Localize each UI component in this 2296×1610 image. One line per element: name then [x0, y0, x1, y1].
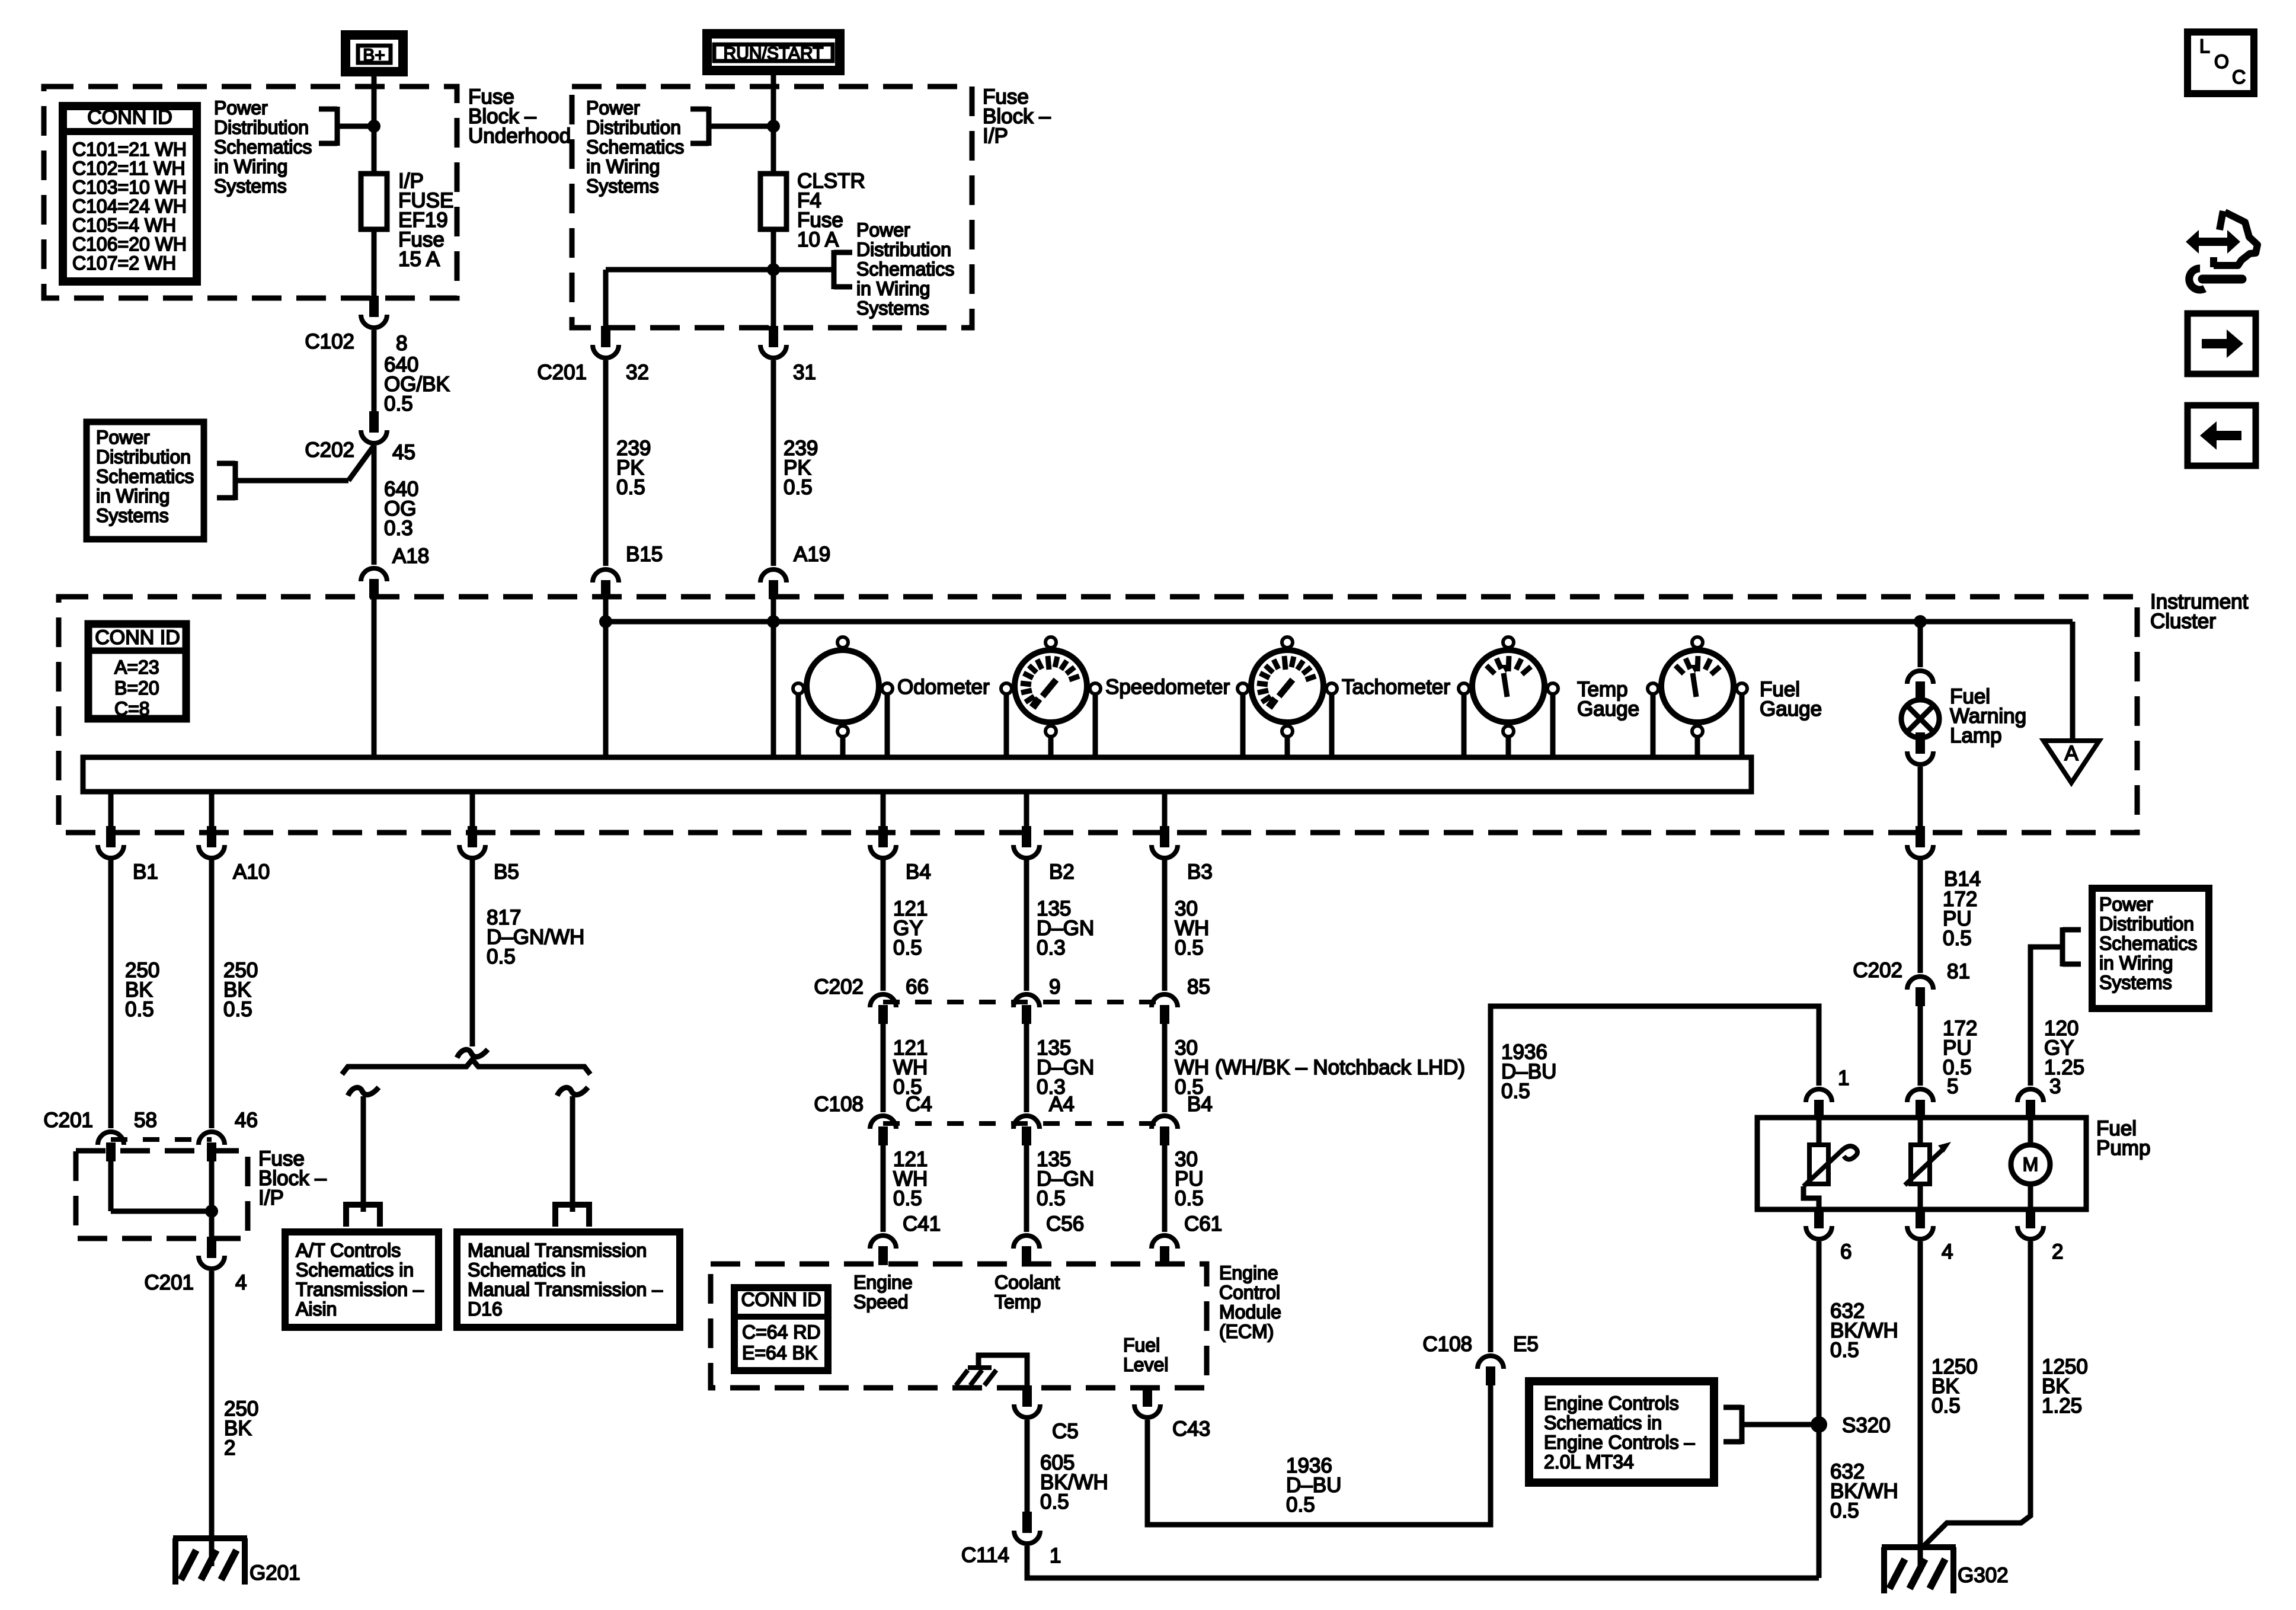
svg-text:Systems: Systems [96, 505, 169, 526]
svg-text:C43: C43 [1172, 1417, 1210, 1441]
connector C114 pin 1 [1022, 1512, 1032, 1533]
connector A19 [760, 569, 786, 582]
junction node [767, 263, 780, 276]
svg-text:Level: Level [1123, 1354, 1169, 1375]
fuse block underhood dashed box [44, 87, 457, 298]
svg-text:Engine: Engine [1219, 1262, 1278, 1283]
wire 172 PU upper [1918, 859, 1923, 973]
svg-text:Schematics in: Schematics in [296, 1259, 414, 1281]
arrow diagonal [1905, 1148, 1944, 1185]
svg-text:Gauge: Gauge [1577, 697, 1639, 721]
wire to C202 [235, 478, 348, 484]
power feed B+ box [346, 35, 403, 72]
svg-text:C4: C4 [906, 1093, 932, 1116]
connector fuel pump pin 3 [2017, 1089, 2044, 1102]
svg-text:C105=4 WH: C105=4 WH [72, 215, 176, 236]
wire 239 PK left [603, 360, 609, 566]
terminal staple left [346, 1205, 380, 1227]
svg-text:C201: C201 [537, 361, 587, 384]
connector C201 pin 4 [207, 1237, 216, 1258]
svg-text:45: 45 [392, 441, 415, 464]
splice S320 [1811, 1416, 1827, 1433]
LOC legend box [2188, 32, 2254, 94]
svg-text:C41: C41 [903, 1212, 941, 1235]
svg-text:Tachometer: Tachometer [1342, 676, 1450, 699]
branch wire right [570, 1096, 575, 1212]
variable resistor [1911, 1145, 1930, 1184]
adjust icon double arrow [2186, 230, 2240, 254]
connector C43 [1143, 1385, 1152, 1407]
fuel sender resistor [1809, 1145, 1828, 1184]
power distribution schematics box (right) [2092, 888, 2209, 1009]
wire B1 to cluster edge [108, 792, 114, 828]
engine controls reference box [1529, 1381, 1714, 1483]
A/T controls reference box [285, 1232, 439, 1327]
svg-text:(ECM): (ECM) [1219, 1321, 1274, 1342]
svg-text:Speed: Speed [853, 1291, 909, 1313]
svg-text:CONN ID: CONN ID [87, 106, 172, 129]
svg-text:B15: B15 [626, 543, 663, 566]
reference bracket [2060, 927, 2065, 966]
svg-text:I/P: I/P [983, 124, 1008, 148]
diagonal wire [348, 446, 374, 481]
wire [1918, 1184, 1923, 1209]
fuse CLSTR F4 10A [760, 174, 786, 229]
wire to C201-32 [603, 270, 609, 328]
svg-text:in Wiring: in Wiring [96, 485, 170, 507]
svg-text:Schematics: Schematics [2099, 933, 2197, 954]
svg-text:58: 58 [134, 1109, 157, 1132]
connector fuel pump pin 6 [1814, 1207, 1824, 1228]
distribution bar [342, 1060, 590, 1074]
wire to RUN/START feed [709, 124, 773, 129]
CONN ID table underhood [63, 106, 197, 281]
wire lamp to B14 [1918, 767, 1923, 828]
wire 1250 BK 1.25 [1922, 1241, 2030, 1548]
node B15 rail [599, 615, 612, 628]
connector B4 [878, 826, 888, 847]
svg-text:31: 31 [793, 361, 816, 384]
wire [1024, 1024, 1029, 1112]
forward arrow [2202, 329, 2243, 358]
wire [2028, 1119, 2033, 1145]
svg-text:Schematics: Schematics [214, 136, 312, 158]
svg-text:Aisin: Aisin [296, 1298, 337, 1320]
temp gauge [1472, 650, 1544, 722]
svg-text:Distribution: Distribution [2099, 913, 2194, 934]
connector C202 link dashes [883, 1000, 1165, 1004]
connector B15 [593, 569, 619, 582]
svg-text:Fuel: Fuel [1123, 1334, 1160, 1356]
wire 632 BK/WH [1817, 1241, 1822, 1578]
svg-text:B+: B+ [363, 46, 385, 65]
wire to B+ feed [337, 124, 374, 129]
svg-text:A: A [2064, 742, 2078, 765]
wire fuse to C102 [372, 229, 377, 298]
wire C114 to S320 [1027, 1546, 1819, 1578]
connector A10 [207, 826, 216, 847]
svg-text:Systems: Systems [2099, 972, 2172, 993]
wire joining pins [111, 1209, 212, 1214]
tachometer gauge [1251, 650, 1323, 722]
svg-text:C=8: C=8 [114, 698, 150, 719]
svg-text:C201: C201 [144, 1271, 194, 1294]
connector B5 [468, 826, 477, 847]
svg-text:Engine Controls: Engine Controls [1544, 1393, 1679, 1414]
wire B15 into cluster [603, 599, 609, 758]
svg-text:0.5: 0.5 [893, 1187, 922, 1210]
svg-text:0.5: 0.5 [487, 945, 516, 968]
svg-text:0.5: 0.5 [1175, 1187, 1204, 1210]
odometer gauge [807, 650, 879, 722]
reference bracket [706, 107, 712, 146]
connector fuel pump pin 5 [1907, 1089, 1933, 1102]
connector fuel pump pin 1 [1806, 1089, 1832, 1102]
svg-text:6: 6 [1840, 1240, 1851, 1263]
power feed RUN/START box [707, 34, 840, 71]
svg-text:C: C [2232, 66, 2246, 88]
svg-text:0.5: 0.5 [1943, 927, 1972, 950]
power distribution schematics box (left) [87, 422, 204, 539]
svg-text:L: L [2199, 36, 2210, 57]
wire 640 OG/BK [372, 330, 377, 414]
svg-text:C103=10 WH: C103=10 WH [72, 177, 187, 198]
CONN ID table cluster [88, 624, 186, 719]
svg-text:C102=11 WH: C102=11 WH [72, 158, 186, 179]
wire A10 to cluster edge [209, 792, 215, 828]
svg-text:B4: B4 [906, 860, 931, 884]
wire to fuel warning lamp [1918, 622, 1923, 667]
svg-text:in Wiring: in Wiring [586, 156, 660, 177]
svg-text:G302: G302 [1958, 1564, 2009, 1587]
wire 817 D-GN/WH [470, 859, 475, 1046]
svg-text:0.5: 0.5 [1175, 936, 1204, 959]
manual transmission reference box [457, 1232, 680, 1327]
svg-text:Odometer: Odometer [897, 676, 990, 699]
svg-text:A4: A4 [1049, 1093, 1075, 1116]
svg-text:0.5: 0.5 [616, 476, 645, 499]
adjust icon hand outline [2214, 212, 2257, 265]
svg-text:WH (WH/BK – Notchback LHD): WH (WH/BK – Notchback LHD) [1175, 1056, 1465, 1079]
svg-text:RUN/START: RUN/START [724, 44, 824, 63]
wire through fuse block [209, 1161, 215, 1239]
svg-text:Engine: Engine [853, 1272, 913, 1293]
svg-text:Power: Power [586, 97, 640, 119]
wire 250 BK (A10) [209, 859, 215, 1128]
wire 135 D–GN [1024, 859, 1029, 991]
svg-text:1: 1 [1050, 1544, 1061, 1567]
svg-text:2: 2 [2052, 1240, 2063, 1263]
svg-text:Distribution: Distribution [856, 239, 951, 260]
reference bracket [335, 107, 340, 146]
svg-text:8: 8 [396, 332, 407, 355]
wire B3 to cluster edge [1162, 792, 1168, 828]
svg-text:3: 3 [2049, 1075, 2061, 1098]
svg-text:0.5: 0.5 [1037, 1187, 1066, 1210]
svg-text:C202: C202 [305, 438, 354, 462]
svg-text:A=23: A=23 [114, 657, 159, 678]
engine control module dashed box [711, 1264, 1207, 1388]
svg-text:C101=21 WH: C101=21 WH [72, 139, 187, 160]
svg-text:A/T Controls: A/T Controls [296, 1240, 401, 1261]
svg-text:in Wiring: in Wiring [856, 278, 930, 299]
wire [1024, 1145, 1029, 1232]
connector fuel pump pin 4 [1916, 1207, 1925, 1228]
svg-text:15 A: 15 A [398, 248, 440, 271]
back arrow [2200, 421, 2241, 450]
svg-text:Module: Module [1219, 1301, 1281, 1323]
connector C61 [1152, 1235, 1178, 1249]
svg-text:Schematics in: Schematics in [1544, 1412, 1662, 1433]
svg-text:Speedometer: Speedometer [1105, 676, 1230, 699]
svg-text:E5: E5 [1513, 1333, 1539, 1356]
terminal staple right [555, 1205, 589, 1227]
svg-text:Control: Control [1219, 1282, 1280, 1303]
fuse I/P FUSE EF19 15A [361, 174, 387, 229]
fuse block I/P dashed box [572, 87, 972, 328]
svg-text:M: M [2023, 1154, 2039, 1175]
connector C108 pin B4 [1152, 1116, 1178, 1129]
svg-text:Systems: Systems [214, 175, 287, 197]
forward arrow box [2188, 313, 2256, 374]
wire [881, 1024, 886, 1112]
ground (internal) [968, 1365, 992, 1370]
wire 1936 D-BU to fuel pump [1491, 1006, 1819, 1352]
svg-text:0.5: 0.5 [125, 998, 154, 1021]
wire [2028, 1184, 2033, 1209]
svg-text:1: 1 [1838, 1067, 1849, 1090]
wire B4 to cluster edge [881, 792, 886, 828]
svg-text:Gauge: Gauge [1760, 697, 1822, 721]
svg-text:Manual Transmission –: Manual Transmission – [468, 1279, 663, 1300]
svg-text:Lamp: Lamp [1950, 724, 2002, 747]
connector C201 pin 58 [98, 1132, 124, 1145]
svg-text:81: 81 [1947, 960, 1970, 983]
svg-text:C202: C202 [814, 975, 864, 998]
connector C108 pin C4 [870, 1116, 896, 1129]
svg-text:C=64 RD: C=64 RD [742, 1321, 821, 1343]
svg-text:C102: C102 [305, 330, 354, 353]
svg-text:C108: C108 [1422, 1333, 1472, 1356]
option squiggle [457, 1049, 488, 1058]
connector C202 pin 85 [1152, 994, 1178, 1007]
wiper diagonal [1803, 1151, 1841, 1186]
svg-text:Coolant: Coolant [994, 1272, 1060, 1293]
supply rail inside cluster [606, 619, 2073, 625]
svg-text:0.3: 0.3 [1037, 936, 1066, 959]
connector B1 [106, 826, 116, 847]
svg-text:G201: G201 [250, 1561, 300, 1585]
wire 250 BK (B1) [108, 859, 114, 1128]
svg-text:0.5: 0.5 [1932, 1394, 1961, 1417]
svg-text:A10: A10 [233, 860, 270, 884]
arrow head [1938, 1142, 1951, 1153]
wire 1936 D-BU [1147, 1384, 1491, 1525]
wire jog [1803, 1186, 1819, 1209]
svg-text:Pump: Pump [2096, 1137, 2150, 1160]
wire inside fuse block [108, 1161, 114, 1211]
svg-text:Power: Power [214, 97, 268, 119]
wire to A18 [372, 446, 377, 565]
fuel gauge [1661, 650, 1734, 722]
svg-text:Engine Controls –: Engine Controls – [1544, 1432, 1695, 1453]
wire [1162, 1145, 1168, 1232]
branch wire [606, 267, 834, 273]
svg-text:Underhood: Underhood [468, 124, 571, 148]
wire B2 to cluster edge [1024, 792, 1029, 828]
gauge common triangle A [2044, 741, 2099, 783]
fuel pump motor M [2011, 1145, 2050, 1184]
connector C202 pin 45 [369, 411, 379, 433]
svg-text:32: 32 [626, 361, 649, 384]
connector C201 link dashes [111, 1137, 212, 1142]
back arrow box [2188, 405, 2256, 466]
svg-text:9: 9 [1049, 975, 1060, 998]
connector B2 [1022, 826, 1031, 847]
node A19 rail [767, 615, 780, 628]
internal ground wire [978, 1355, 1027, 1388]
svg-text:10 A: 10 A [797, 228, 839, 251]
svg-text:2.0L MT34: 2.0L MT34 [1544, 1451, 1634, 1473]
svg-text:C108: C108 [814, 1093, 864, 1116]
svg-text:B1: B1 [133, 860, 158, 884]
wire to S320 [1742, 1422, 1819, 1427]
svg-text:0.5: 0.5 [1830, 1339, 1859, 1362]
svg-text:B2: B2 [1049, 860, 1075, 884]
svg-text:B4: B4 [1187, 1093, 1213, 1116]
wire A18 into cluster [372, 598, 377, 758]
svg-text:C106=20 WH: C106=20 WH [72, 233, 187, 255]
lamp connector lower [1916, 732, 1925, 754]
connector C202 pin 66 [870, 994, 896, 1007]
svg-text:Distribution: Distribution [586, 117, 681, 138]
svg-text:C61: C61 [1184, 1212, 1222, 1235]
wire 120 GY [2030, 947, 2062, 1086]
svg-text:4: 4 [1942, 1240, 1953, 1263]
svg-text:Distribution: Distribution [96, 446, 191, 468]
wire 605 BK/WH [1025, 1420, 1030, 1514]
adjust icon cuff [2210, 257, 2217, 267]
svg-text:Distribution: Distribution [214, 117, 309, 138]
branch squiggle left [348, 1087, 379, 1096]
instrument cluster dashed box [59, 597, 2137, 833]
svg-text:0.5: 0.5 [1286, 1493, 1315, 1516]
svg-text:1.25: 1.25 [2042, 1394, 2082, 1417]
wire 30 WH [1162, 859, 1168, 991]
reference bracket [233, 461, 238, 500]
svg-text:66: 66 [906, 975, 929, 998]
svg-text:A18: A18 [392, 545, 429, 568]
svg-text:C104=24 WH: C104=24 WH [72, 196, 187, 217]
svg-text:C202: C202 [1853, 959, 1902, 982]
wire 250 BK 2 [209, 1271, 215, 1566]
svg-text:CONN ID: CONN ID [95, 626, 180, 649]
svg-text:B=20: B=20 [114, 677, 159, 699]
wire B+ to fuse [372, 76, 377, 174]
gauge supply bus bar [83, 757, 1751, 792]
connector B14 [1916, 826, 1925, 847]
svg-text:Power: Power [2099, 894, 2153, 915]
svg-text:Systems: Systems [586, 175, 659, 197]
reference bracket [832, 250, 837, 289]
svg-text:A19: A19 [794, 543, 830, 566]
branch wire left [361, 1096, 366, 1212]
wire A19 into cluster [771, 599, 776, 758]
svg-text:4: 4 [235, 1271, 247, 1294]
adjust icon wrench handle [2202, 275, 2242, 284]
svg-text:2: 2 [224, 1436, 235, 1459]
CONN ID table ECM [734, 1288, 828, 1371]
svg-text:85: 85 [1187, 975, 1210, 998]
svg-text:in Wiring: in Wiring [2099, 952, 2173, 974]
svg-text:I/P: I/P [258, 1186, 284, 1209]
svg-text:C5: C5 [1052, 1420, 1079, 1443]
adjust icon wrench head [2189, 268, 2205, 290]
svg-text:Power: Power [856, 219, 910, 241]
ground G201 [173, 1535, 247, 1541]
connector C201 pin 46 [199, 1132, 225, 1145]
svg-text:E=64 BK: E=64 BK [742, 1342, 817, 1363]
node lamp rail [1914, 615, 1927, 628]
wire fuse down [771, 229, 776, 328]
junction node [367, 120, 380, 133]
svg-text:46: 46 [235, 1109, 258, 1132]
svg-text:Schematics: Schematics [96, 466, 194, 487]
connector C5 [1022, 1385, 1032, 1407]
svg-text:0.5: 0.5 [784, 476, 813, 499]
junction node [205, 1205, 218, 1218]
svg-text:C114: C114 [961, 1544, 1009, 1567]
svg-text:Schematics: Schematics [586, 136, 684, 158]
connector C56 [1013, 1235, 1040, 1249]
wire 172 PU lower [1918, 1006, 1923, 1086]
svg-text:in Wiring: in Wiring [214, 156, 287, 177]
svg-text:Temp: Temp [994, 1291, 1041, 1313]
connector C41 [870, 1235, 896, 1249]
svg-text:CONN ID: CONN ID [741, 1289, 821, 1310]
connector C102 pin 8 [369, 296, 379, 317]
reference bracket [1739, 1405, 1745, 1444]
junction node [767, 120, 780, 133]
connector C201 pin 31 [769, 326, 778, 347]
svg-text:C56: C56 [1046, 1212, 1084, 1235]
branch squiggle right [557, 1087, 588, 1096]
svg-text:B3: B3 [1187, 860, 1213, 884]
svg-text:5: 5 [1947, 1075, 1958, 1098]
wire RUN/START to fuse [771, 75, 776, 174]
connector fuel pump pin 2 [2026, 1207, 2035, 1228]
svg-text:C201: C201 [43, 1109, 93, 1132]
svg-text:S320: S320 [1842, 1414, 1891, 1437]
fuel pump box [1757, 1118, 2086, 1209]
wire [1817, 1119, 1822, 1145]
svg-text:0.5: 0.5 [1501, 1080, 1530, 1103]
adjust icon thumb [2220, 211, 2223, 230]
svg-text:0.5: 0.5 [893, 936, 922, 959]
svg-text:0.5: 0.5 [1830, 1499, 1859, 1522]
fuel warning lamp [1901, 700, 1939, 738]
svg-text:Manual Transmission: Manual Transmission [468, 1240, 647, 1261]
wire 121 GY [881, 859, 886, 991]
connector C202 pin 9 [1013, 994, 1040, 1007]
wire 1250 BK 0.5 [1918, 1241, 1923, 1571]
connector C108 pin A4 [1013, 1116, 1040, 1129]
wire [881, 1145, 886, 1232]
connector C108 link dashes [883, 1121, 1165, 1126]
connector C201 pin 32 [601, 326, 610, 347]
svg-text:Schematics: Schematics [856, 258, 954, 280]
ground G302 [1882, 1544, 1956, 1550]
